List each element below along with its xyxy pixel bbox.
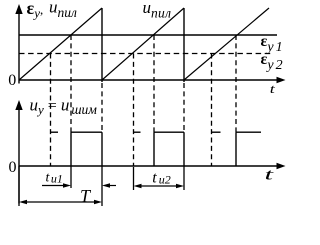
dashed-edge corner tick period 2 [134, 131, 141, 133]
pulse 2 rising edge [153, 132, 155, 166]
pulse 2 top [154, 131, 184, 133]
sawtooth ramp 3 [184, 8, 269, 80]
dashed-edge corner tick period 1 [51, 131, 59, 133]
epsilon_y1 level line (solid) [19, 34, 277, 36]
bottom x-axis arrowhead [277, 163, 286, 170]
sawtooth drop 1 [101, 8, 103, 82]
t_i2 dimension left arrowhead [134, 184, 142, 189]
extension line below axis at x=71 [70, 166, 72, 188]
dashed vertical at x=71 (eps_y1 crossing, period 1) [70, 35, 72, 132]
sawtooth drop 2 [183, 8, 185, 82]
T dimension right arrowhead [94, 200, 102, 205]
dashed vertical at x=102 (between charts) [101, 83, 103, 132]
svg-text:tи1: tи1 [46, 171, 63, 186]
extension line below axis at x=102 [101, 166, 103, 206]
sawtooth ramp 1 [19, 8, 102, 80]
extension line below axis at x=19 [18, 166, 20, 206]
svg-text:t: t [265, 167, 275, 184]
top y-axis [18, 12, 20, 84]
pulse 1 falling edge [101, 132, 103, 166]
sawtooth ramp 2 [102, 8, 184, 80]
svg-text:t: t [270, 81, 276, 96]
dashed vertical at x=154 (eps_y1 crossing, period 2) [153, 35, 155, 132]
T dimension line [27, 201, 94, 203]
dashed vertical at x=236 (eps_y1 crossing, period 3) [235, 35, 237, 132]
t_i1 dimension left leader [42, 185, 63, 187]
pulse 3 rising edge [235, 132, 237, 166]
extension line below axis at x=184 [183, 166, 185, 190]
extension line below axis at x=133 [133, 167, 135, 190]
t_i1 dimension right leader [110, 185, 116, 187]
bottom x-axis [19, 165, 278, 167]
dashed vertical at x=184 (between charts) [183, 83, 185, 132]
pulse 2 falling edge [183, 132, 185, 166]
svg-text:0: 0 [9, 159, 17, 176]
dashed vertical at x=211 (eps_y2 crossing, period 3) [211, 54, 213, 167]
T dimension left arrowhead [19, 200, 27, 205]
svg-text:tи2: tи2 [152, 170, 170, 187]
pulse 1 rising edge [70, 132, 72, 166]
dashed-edge corner tick period 3 [212, 131, 221, 133]
bottom y-axis arrowhead [15, 100, 22, 110]
bottom y-axis [18, 108, 20, 204]
t_i2 dimension right arrowhead [176, 184, 184, 189]
top x-axis [19, 79, 278, 81]
pulse 1 top [71, 131, 102, 133]
dashed vertical at x=50 (eps_y2 crossing, period 1) [50, 54, 52, 167]
pulse 3 top [236, 131, 261, 133]
top x-axis arrowhead [277, 77, 286, 84]
top y-axis arrowhead [15, 4, 22, 14]
epsilon_y2 level line (dashed) [19, 53, 272, 55]
svg-text:0: 0 [8, 72, 16, 89]
t_i2 dimension line [141, 185, 176, 187]
t_i1 dimension left arrowhead [63, 183, 71, 188]
t_i1 dimension right arrowhead [102, 183, 110, 188]
dashed vertical at x=133 (eps_y2 crossing, period 2) [133, 54, 135, 167]
